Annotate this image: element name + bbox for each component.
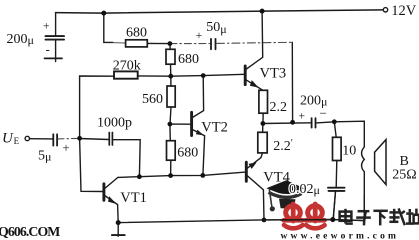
capacitor 200u out plates bbox=[311, 118, 313, 127]
wire output node to 200u out cap bbox=[263, 122, 311, 125]
wire R10 to C 0.02u bbox=[335, 161, 338, 188]
node A bbox=[168, 74, 173, 79]
resistor R 2.2 vertical bbox=[259, 90, 268, 113]
node VT2 emitter at collector rail bbox=[200, 173, 205, 178]
node output bbox=[261, 121, 266, 126]
svg-text:680: 680 bbox=[178, 52, 199, 67]
wire 1000p to VT1 collector rail bbox=[113, 140, 140, 177]
wire bootstrap vertical to output bbox=[291, 42, 293, 122]
wire bootstrap left (dashed faint) bbox=[170, 43, 210, 45]
wire R10 top bbox=[334, 122, 336, 138]
svg-text:−: − bbox=[320, 106, 327, 121]
capacitor 0.02u plates bbox=[328, 187, 345, 189]
transistor VT1 emitter bbox=[105, 196, 118, 205]
svg-text:VT3: VT3 bbox=[260, 66, 287, 82]
svg-text:2.2: 2.2 bbox=[270, 100, 288, 115]
svg-text:12V: 12V bbox=[391, 3, 417, 19]
wire 270k right to node A bbox=[138, 75, 171, 77]
wire node C to R680c bbox=[169, 124, 171, 141]
node 0.02u at ground rail bbox=[330, 217, 335, 222]
wire speaker vertical redrawn over watermark bbox=[363, 195, 365, 221]
svg-text:5μ: 5μ bbox=[38, 149, 51, 164]
wire top supply rail bbox=[56, 10, 384, 13]
wire R2.2 to output node bbox=[262, 113, 264, 123]
wire bottom ground rail bbox=[118, 220, 364, 223]
node VT3 collector at rail bbox=[260, 9, 265, 14]
transistor VT4 emitter arrow (PNP, points to bar) bbox=[249, 162, 257, 169]
wire UE to C 5u bbox=[30, 138, 53, 140]
wire VT1 collector rail to VT4 base bbox=[118, 172, 246, 177]
svg-text:270k: 270k bbox=[113, 59, 141, 74]
speaker cone B bbox=[375, 140, 386, 185]
resistor R 680a horizontal bbox=[126, 40, 148, 47]
resistor R 10 vertical bbox=[333, 137, 342, 160]
wire 0.02u lead redrawn over watermark bbox=[333, 191, 335, 219]
wire 200u out to speaker branch bbox=[316, 121, 364, 147]
svg-text:200μ: 200μ bbox=[7, 32, 34, 47]
wire node to R680b bbox=[169, 44, 171, 50]
svg-text:2.2′: 2.2′ bbox=[273, 138, 293, 154]
svg-text:25Ω: 25Ω bbox=[392, 167, 416, 182]
wire supply branch to R 680a bbox=[104, 13, 113, 42]
node 200u out right bbox=[332, 119, 337, 124]
transistor VT1 collector bbox=[105, 177, 118, 188]
svg-text:+: + bbox=[63, 141, 70, 155]
wire R560 to node C bbox=[170, 107, 171, 124]
wire R680b to node A bbox=[170, 64, 172, 76]
transistor VT3 base bar bbox=[244, 66, 247, 85]
node VT1 emitter at ground rail bbox=[116, 220, 121, 225]
wire node A to R560 bbox=[170, 76, 172, 86]
node R680c at collector rail bbox=[168, 173, 173, 178]
wire input node to C1000p bbox=[80, 139, 109, 140]
ground symbol at VT1 emitter bbox=[117, 223, 119, 237]
node 1000p at collector rail bbox=[137, 174, 142, 179]
wire bottom rail redrawn over watermark bbox=[264, 220, 364, 221]
transistor VT3 collector bbox=[246, 11, 263, 69]
svg-text:+: + bbox=[299, 111, 306, 123]
transistor VT3 emitter bbox=[246, 80, 263, 91]
node input bbox=[77, 136, 82, 141]
transistor VT2 emitter bbox=[192, 130, 204, 136]
wire bootstrap right (dashed faint) bbox=[216, 42, 292, 43]
svg-text:Q606.COM: Q606.COM bbox=[0, 224, 60, 239]
node B bbox=[201, 73, 206, 78]
node C VT2 base bbox=[168, 122, 173, 127]
svg-text:www.eeworm.com: www.eeworm.com bbox=[281, 232, 400, 240]
wire 0.02u to ground rail bbox=[333, 191, 335, 219]
watermark black rail over red bbox=[280, 219, 333, 222]
svg-text:10: 10 bbox=[342, 144, 356, 159]
svg-text:VT1: VT1 bbox=[120, 190, 147, 206]
watermark dianzi xiazaizhan characters bbox=[340, 208, 419, 225]
node bootstrap bbox=[168, 41, 173, 46]
svg-text:1000p: 1000p bbox=[97, 116, 132, 131]
capacitor 50u plates bbox=[210, 39, 212, 49]
wire speaker coil bbox=[362, 147, 365, 172]
svg-text:680: 680 bbox=[126, 25, 147, 40]
capacitor C1 plates bbox=[46, 35, 65, 37]
resistor R 2.2prime vertical bbox=[258, 132, 267, 153]
wire R680a to node bbox=[147, 42, 170, 44]
wire VT2 emitter down to rail bbox=[203, 136, 205, 176]
svg-text:50μ: 50μ bbox=[206, 20, 226, 36]
wire speaker bottom bbox=[363, 172, 365, 221]
transistor VT2 base bar bbox=[190, 112, 193, 135]
transistor VT1 base bar bbox=[102, 184, 105, 201]
wire R680c to collector rail bbox=[170, 160, 172, 175]
svg-text:680: 680 bbox=[177, 145, 198, 160]
svg-text:E: E bbox=[14, 136, 20, 146]
watermark chongchong red characters bbox=[284, 204, 325, 228]
watermark graduation cap logo bbox=[266, 180, 304, 211]
terminal 12V circle bbox=[383, 8, 387, 12]
wire node B to VT3 base bbox=[203, 74, 244, 75]
ground below C1 bbox=[45, 57, 63, 59]
wire node C to VT2 base bbox=[170, 123, 190, 125]
svg-text:+: + bbox=[43, 21, 50, 33]
svg-text:+: + bbox=[196, 30, 203, 42]
wire input vertical down to VT1 base bbox=[80, 138, 103, 191]
node 0.02u at ground rail redrawn bbox=[330, 217, 335, 222]
wire VT1 emitter down bbox=[117, 204, 120, 222]
capacitor C1 bottom lead bbox=[55, 40, 57, 62]
wire output node down to R2.2p bbox=[262, 124, 264, 133]
transistor VT4 collector bbox=[247, 176, 264, 220]
node VT4 collector at ground rail bbox=[262, 218, 267, 223]
svg-text:-: - bbox=[46, 42, 50, 57]
terminal UE input circle bbox=[25, 136, 29, 140]
transistor VT2 collector bbox=[192, 76, 203, 118]
transistor VT4 base bar bbox=[245, 162, 248, 181]
capacitor C1 200u filter: top lead bbox=[55, 13, 57, 36]
svg-text:560: 560 bbox=[142, 92, 163, 107]
wire 5u to input node (faint) bbox=[58, 137, 80, 140]
wire node A to node B bbox=[171, 75, 203, 78]
wire 270k left + vertical to input node bbox=[80, 76, 114, 138]
node bootstrap at output bbox=[290, 120, 295, 125]
svg-text:U: U bbox=[2, 131, 14, 147]
node supply branch bbox=[101, 11, 106, 16]
resistor R 560 vertical bbox=[167, 86, 175, 107]
svg-text:0.02μ: 0.02μ bbox=[289, 182, 320, 197]
svg-text:VT2: VT2 bbox=[201, 119, 228, 135]
wire R2.2p to VT4 emitter bbox=[247, 153, 262, 169]
resistor R 270k horizontal bbox=[114, 71, 138, 78]
resistor R 680c vertical bbox=[167, 141, 176, 161]
capacitor 5u plates bbox=[52, 134, 54, 145]
capacitor 1000p plates bbox=[108, 133, 110, 146]
resistor R 680b vertical bbox=[166, 49, 175, 64]
